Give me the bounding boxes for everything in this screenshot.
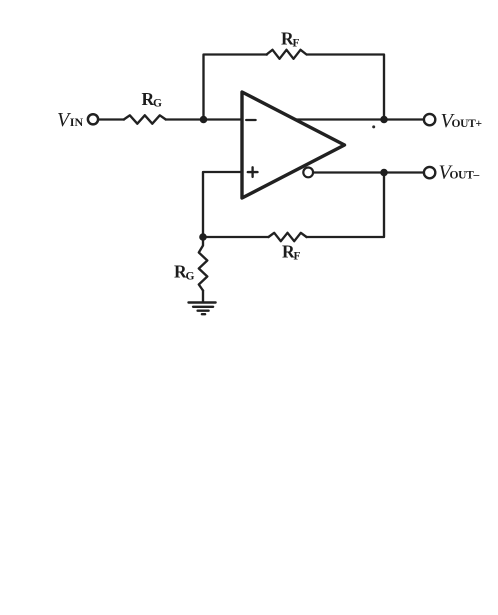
ground <box>189 303 216 315</box>
op-amp inverting pin minus sign <box>246 119 255 121</box>
terminal: Vout+ <box>424 114 435 125</box>
node: bottom output junction <box>380 169 388 177</box>
node: top output junction <box>380 116 388 124</box>
wire: top feedback right vertical <box>307 55 384 120</box>
terminal: Vin <box>88 114 98 124</box>
node: bottom feedback junction <box>199 233 207 241</box>
label RF2 value <box>282 242 301 263</box>
resistor RF2 <box>269 233 307 241</box>
op-amp non-inverting pin plus sign <box>248 167 258 177</box>
wire: bottom feedback left <box>203 236 269 238</box>
svg-text:OUT–: OUT– <box>450 170 480 182</box>
wire: top feedback left vertical <box>204 55 268 120</box>
wire: RG2 to ground <box>202 291 204 303</box>
wire: RG1 to op-amp inverting input <box>166 118 242 120</box>
resistor RG1 <box>124 115 166 123</box>
wire: top output <box>295 118 423 120</box>
wire: bottom output <box>313 171 423 173</box>
resistor RF1 <box>267 50 307 59</box>
stray scan mark <box>372 125 375 128</box>
wire: non-inverting input <box>203 172 242 237</box>
label Vin <box>57 109 83 131</box>
svg-text:IN: IN <box>70 115 84 129</box>
svg-text:F: F <box>294 251 301 263</box>
svg-text:G: G <box>153 98 162 110</box>
terminal: Vout- <box>424 167 435 178</box>
op-amp U1 triangle <box>242 92 345 198</box>
label Vout- <box>439 162 480 184</box>
node: input junction <box>200 116 208 124</box>
label RF1 value <box>281 29 300 50</box>
label Vout+ <box>441 110 482 132</box>
svg-text:F: F <box>293 38 300 50</box>
label RG1 value <box>142 89 163 110</box>
svg-text:G: G <box>186 270 195 282</box>
label RG2 value <box>174 261 195 282</box>
wire: bottom feedback right vertical <box>307 173 385 238</box>
wire: Vin terminal to RG1 <box>99 118 124 120</box>
svg-text:OUT+: OUT+ <box>452 118 482 130</box>
resistor RG2 <box>199 237 208 291</box>
op-amp inverted output bubble <box>303 168 313 178</box>
